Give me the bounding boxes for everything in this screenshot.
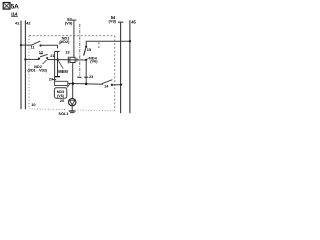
label ND4 [87, 56, 98, 64]
svg-text:42: 42 [26, 20, 31, 25]
svg-text:(V9): (V9) [65, 21, 73, 26]
connector 13 bar [67, 57, 69, 64]
contact 11 dot [39, 44, 41, 46]
contact 12 blade [40, 54, 48, 57]
svg-text:(VD2): (VD2) [59, 39, 70, 44]
svg-text:11: 11 [31, 44, 36, 49]
contact 12 dot [46, 57, 48, 59]
svg-text:27: 27 [49, 77, 53, 82]
relay ND3 label box [54, 83, 70, 98]
wire 42 vertical [24, 21, 26, 110]
label ND1 [59, 35, 70, 44]
connector pin 27 [52, 79, 57, 80]
wire 53 vertical lower [72, 63, 74, 99]
fuse F1 icon [3, 3, 10, 10]
contact 14 dot [111, 84, 113, 86]
connector 13 tick [76, 58, 78, 62]
label 12 [39, 49, 44, 54]
connector 13 square [70, 57, 75, 62]
wire 54 vertical [120, 23, 122, 114]
ground bar MEM [54, 76, 60, 77]
terminal 53 T-bar [72, 19, 77, 21]
wire NO4 down [85, 60, 87, 84]
relay box dashed top [29, 35, 115, 37]
wire 21 vertical to coil row [54, 52, 56, 81]
link end bar [77, 77, 81, 78]
wire coil row horizontal [68, 82, 103, 85]
svg-text:15: 15 [87, 47, 92, 52]
svg-text:41: 41 [15, 20, 20, 25]
node B junction [24, 58, 26, 60]
svg-text:I14: I14 [11, 11, 17, 16]
wire B horizontal right [47, 59, 86, 62]
node coil junction [72, 82, 75, 85]
svg-text:SOL1: SOL1 [58, 111, 69, 116]
node MEM junction [57, 58, 59, 60]
coil box [55, 81, 68, 85]
svg-text:45: 45 [131, 19, 136, 24]
contact 14 connect [112, 84, 121, 86]
wire A horizontal [21, 44, 32, 46]
node coil row junction [85, 83, 88, 86]
node NO4 junction [85, 59, 87, 61]
node bus junction [129, 40, 131, 42]
terminal 54 T-bar [118, 21, 123, 23]
wire NO4 corner to bus [86, 41, 130, 47]
relay box dashed right [114, 36, 116, 111]
contact 11 blade [31, 41, 41, 45]
relay box dotted bottom [29, 109, 115, 111]
terminal 53 label [65, 17, 73, 26]
label ND2 [28, 60, 48, 73]
wire B horizontal left [25, 58, 39, 60]
node A junction [20, 44, 22, 46]
solenoid SOL1 circle [69, 98, 76, 105]
wire 41 vertical [20, 21, 22, 110]
svg-text:5A: 5A [11, 3, 19, 10]
svg-text:(V6): (V6) [90, 58, 98, 63]
ground [69, 110, 76, 113]
wire 53 vertical upper [73, 21, 75, 58]
svg-text:10: 10 [31, 102, 35, 107]
wire to ground [71, 106, 73, 111]
svg-text:20: 20 [60, 98, 64, 103]
svg-text:13: 13 [65, 49, 70, 54]
svg-text:14: 14 [104, 84, 109, 89]
leader MEM [58, 61, 63, 69]
connector pin 23 [84, 77, 88, 78]
svg-text:23: 23 [89, 74, 94, 79]
svg-text:MEM: MEM [58, 69, 68, 74]
wire 45 vertical [129, 20, 131, 113]
contact 14 blade [102, 80, 113, 84]
node I14 [11, 11, 18, 16]
mech link dash-dot [79, 24, 81, 76]
solenoid triangle [69, 100, 75, 105]
contact 15 dot top [85, 46, 87, 48]
node wire54 junction [120, 83, 122, 85]
wire from contact 11 to vertical [41, 45, 58, 48]
contact 15 blade [84, 48, 86, 55]
svg-text:(VD1→VD2): (VD1→VD2) [28, 68, 48, 72]
stub on bus [98, 42, 100, 48]
svg-text:(V8): (V8) [108, 19, 116, 24]
contact 12 pivot dot [38, 57, 40, 59]
terminal 54 label [108, 15, 116, 23]
wire MEM vertical [57, 52, 59, 76]
connector tick on vertical [54, 51, 59, 52]
relay box dashed left [28, 36, 30, 109]
